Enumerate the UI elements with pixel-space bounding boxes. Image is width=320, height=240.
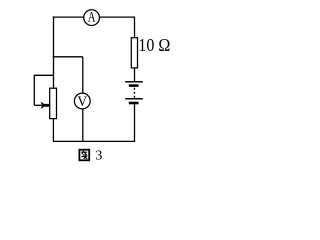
battery B2 cell plate long (+) — [125, 98, 143, 100]
wire: resistor to battery — [134, 68, 136, 81]
wire: voltmeter top lead — [82, 57, 84, 93]
svg-text:3: 3 — [95, 148, 102, 163]
wire: rheostat bottom to bottom wire — [52, 119, 54, 142]
battery B1 cell plate short (-) — [129, 84, 139, 87]
caption glyph "tu" (figure) — [79, 150, 89, 161]
battery B2 cell plate short (-) — [129, 102, 139, 105]
wire: voltmeter branch horizontal — [53, 56, 83, 58]
wire: battery down to bottom right corner then bottom wire — [53, 104, 135, 141]
wire: rheostat slider branch from main vertical — [34, 75, 53, 105]
resistor R1 (10 ohm) — [131, 38, 137, 68]
svg-text:A: A — [88, 9, 96, 25]
svg-text:V: V — [77, 93, 87, 110]
wire: left vertical from top-left corner down to rheostat body — [53, 16, 55, 88]
wire: top left segment to ammeter — [53, 16, 84, 18]
rheostat RP body — [50, 88, 57, 118]
ammeter U1 — [84, 9, 100, 26]
battery dashed link (more cells) — [134, 88, 136, 98]
rheostat slider arrow — [34, 104, 43, 106]
wire: top right segment from ammeter to right corner — [100, 17, 135, 38]
wire: voltmeter bottom lead to bottom wire — [82, 109, 84, 141]
voltmeter U2 — [74, 93, 90, 110]
battery B1 cell plate long (+) — [125, 81, 143, 83]
svg-text:10 Ω: 10 Ω — [138, 35, 170, 55]
